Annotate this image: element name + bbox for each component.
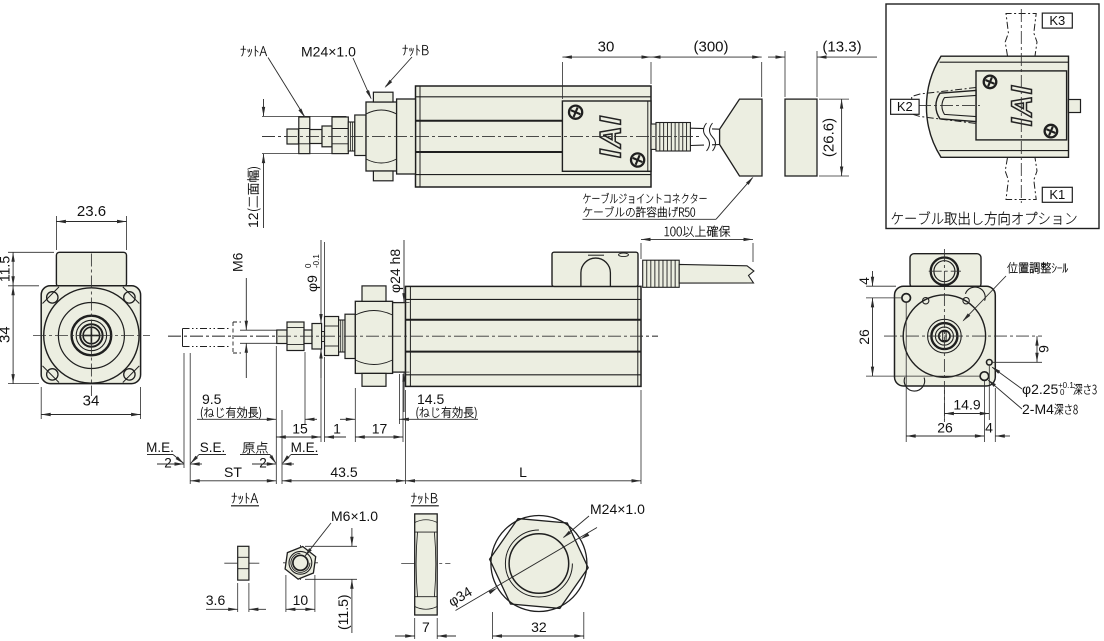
flange ring behind nut B (top view) bbox=[397, 99, 416, 174]
label origin (genten) with leader bbox=[243, 442, 268, 454]
svg-text:φ9: φ9 bbox=[304, 275, 320, 292]
body lines (box view) bbox=[940, 62, 1069, 150]
rod end circle (front view) bbox=[80, 324, 102, 346]
svg-text:9: 9 bbox=[1036, 345, 1052, 353]
front ring (middle view) bbox=[345, 314, 355, 358]
cylinder body (top side view) bbox=[416, 86, 652, 187]
bolt hole bottom-right (front view) bbox=[124, 369, 135, 380]
phi34 circle bbox=[491, 516, 587, 612]
svg-text:M24×1.0: M24×1.0 bbox=[590, 501, 645, 517]
svg-text:0: 0 bbox=[1060, 388, 1065, 397]
grommet block (top view) bbox=[785, 99, 817, 176]
screw (plate top-left, top view) bbox=[569, 106, 582, 119]
nut B side view bbox=[401, 563, 450, 565]
svg-text:12: 12 bbox=[245, 212, 261, 228]
svg-text:S.E.: S.E. bbox=[200, 440, 226, 455]
label nut A (top) with leader bbox=[241, 46, 267, 57]
nut A side view bbox=[224, 562, 262, 564]
IAI label plate (top view) bbox=[562, 101, 651, 171]
dimension 10 bbox=[285, 575, 287, 612]
svg-text:M.E.: M.E. bbox=[146, 440, 174, 455]
cable with jagged end (middle view) bbox=[679, 264, 754, 283]
svg-text:4: 4 bbox=[856, 277, 872, 285]
centerline horizontal (box view) bbox=[896, 105, 980, 107]
cable stub (top view) bbox=[651, 124, 656, 149]
phi2.25 hole (rear view) bbox=[987, 360, 993, 366]
dimension (13.3) bbox=[784, 51, 786, 97]
rod collar phi9 (middle view) bbox=[312, 324, 322, 350]
nut B front view bbox=[494, 563, 584, 565]
svg-text:φ2.25: φ2.25 bbox=[1022, 381, 1059, 397]
dimension 15 bbox=[276, 436, 321, 438]
phi34 diagonal leader bbox=[456, 528, 598, 611]
option box border bbox=[886, 4, 1099, 229]
svg-text:10: 10 bbox=[293, 592, 309, 608]
dimension 43.5 bbox=[282, 480, 406, 482]
body extrusion lines (top view) bbox=[416, 96, 652, 98]
svg-text:(11.5): (11.5) bbox=[335, 594, 351, 630]
bolt hole top-left (front view) bbox=[47, 292, 58, 303]
front view top bump bbox=[56, 252, 126, 286]
rod shaft (top view) bbox=[310, 130, 322, 144]
dimension 12 across flats bbox=[262, 115, 346, 117]
center screw with cross slot (front view) bbox=[83, 327, 100, 344]
dimension 4 (rear left top) bbox=[866, 285, 896, 287]
centerlines (front view) bbox=[33, 335, 150, 337]
nut A on rod (top view) bbox=[299, 117, 310, 154]
svg-text:2: 2 bbox=[164, 456, 172, 471]
svg-text:3.6: 3.6 bbox=[206, 592, 226, 608]
svg-text:M6×1.0: M6×1.0 bbox=[331, 508, 378, 524]
svg-text:4: 4 bbox=[985, 420, 993, 436]
body end face lines (middle view) bbox=[409, 286, 411, 386]
cable arch in housing (middle view) bbox=[581, 258, 611, 286]
svg-text:L: L bbox=[519, 464, 527, 480]
cable break symbol (top view) bbox=[704, 123, 710, 151]
dimension phi24 h8 (neck) bbox=[403, 240, 405, 303]
svg-text:IAI: IAI bbox=[1007, 85, 1039, 127]
screw top-left (box view) bbox=[984, 76, 997, 89]
flange corner chamfer lines bbox=[43, 287, 60, 304]
dimension 30 (top) bbox=[561, 62, 563, 99]
cable corrugation (top view) bbox=[656, 123, 690, 152]
K3 label box bbox=[1042, 13, 1072, 28]
dimension 9 (rear right) bbox=[992, 361, 1042, 363]
svg-text:(26.6): (26.6) bbox=[821, 118, 838, 157]
dimension 100 min clearance bbox=[640, 243, 642, 259]
centerline redraw (top view) bbox=[262, 135, 702, 137]
dimension L bbox=[406, 480, 642, 482]
svg-text:34: 34 bbox=[0, 326, 14, 343]
dimension 26 (rear bottom) bbox=[905, 302, 907, 442]
thread rings (top view) bbox=[348, 122, 355, 151]
cable corrugation (middle view) bbox=[643, 260, 680, 287]
label nut B (bottom) bbox=[411, 493, 437, 504]
centerline (top side view) bbox=[262, 135, 702, 137]
svg-text:-0.1: -0.1 bbox=[312, 254, 321, 268]
M4 hole top-left (rear view) bbox=[902, 294, 911, 303]
body extrusion lines (middle view) bbox=[406, 298, 642, 300]
cable joint connector cone (top view) bbox=[720, 99, 762, 176]
svg-text:7: 7 bbox=[422, 619, 430, 635]
svg-text:26: 26 bbox=[856, 329, 872, 345]
bearing retainer rings (front view) bbox=[72, 316, 112, 356]
corner lobe top-right (rear view) bbox=[965, 287, 985, 301]
dimension 7 bbox=[414, 618, 416, 639]
thread rings (middle view) bbox=[339, 320, 345, 352]
svg-text:ST: ST bbox=[224, 464, 242, 480]
svg-text:17: 17 bbox=[372, 421, 388, 437]
extension lines below rod (middle view) bbox=[275, 346, 277, 484]
piston rod tip M6 (top view) bbox=[287, 129, 299, 144]
bolt hole top-right (front view) bbox=[124, 292, 135, 303]
svg-text:K1: K1 bbox=[1049, 187, 1065, 202]
retracted rod phantom outline (middle view) bbox=[182, 329, 184, 347]
rod collar (top view) bbox=[322, 126, 332, 147]
svg-text:M.E.: M.E. bbox=[291, 440, 319, 455]
boss circle (front view) bbox=[44, 288, 139, 383]
dimension 32 bbox=[492, 612, 494, 639]
dimension M6 (rod tip) bbox=[240, 329, 277, 331]
centerlines (rear view) bbox=[884, 335, 1042, 337]
svg-text:K3: K3 bbox=[1049, 13, 1065, 28]
K1 label box bbox=[1042, 187, 1072, 202]
body end face lines (top view) bbox=[419, 86, 421, 187]
K3 phantom connector (dash-dot) bbox=[1005, 14, 1037, 57]
dimension 1 bbox=[325, 436, 347, 438]
svg-text:43.5: 43.5 bbox=[330, 464, 357, 480]
connector housing bump (middle view) bbox=[552, 252, 638, 286]
K1 phantom connector (dash-dot) bbox=[1005, 158, 1037, 200]
nut B M24 (top view) bbox=[366, 102, 397, 171]
housing top edge details bbox=[588, 254, 604, 256]
inner circle (front view) bbox=[58, 303, 124, 369]
cable gland circle (rear view) bbox=[931, 258, 958, 285]
phi24 h8 neck (middle view) bbox=[393, 303, 406, 373]
dimension 11.5 (front view) bbox=[8, 251, 54, 253]
boss circle (rear view) bbox=[903, 295, 985, 377]
label position adjustment seal with leader bbox=[1007, 262, 1068, 273]
nut B thread circles bbox=[505, 530, 572, 597]
svg-text:2-M4: 2-M4 bbox=[1022, 401, 1054, 417]
IAI plate (box view) bbox=[976, 71, 1067, 140]
svg-text:M6: M6 bbox=[230, 252, 246, 272]
dimension 4 (rear bottom right) bbox=[994, 388, 996, 442]
right stub (box view) bbox=[1069, 100, 1081, 113]
svg-text:2: 2 bbox=[259, 456, 267, 471]
svg-text:K2: K2 bbox=[897, 99, 913, 114]
rod end hex (top view) bbox=[332, 117, 348, 154]
nut B M24 (middle view) bbox=[355, 301, 392, 373]
dimension 34 vertical (front view) bbox=[8, 383, 39, 385]
cable joint connector label with leader bbox=[583, 193, 706, 204]
K2 phantom connector (dash-dot) bbox=[912, 88, 976, 124]
cylinder body (middle view) bbox=[406, 286, 642, 386]
K2 label box bbox=[891, 99, 920, 114]
svg-text:30: 30 bbox=[598, 39, 615, 56]
dimension 3.6 bbox=[237, 583, 239, 612]
small hole right on boss (rear view) bbox=[963, 298, 969, 304]
svg-text:34: 34 bbox=[83, 393, 100, 410]
centerline (middle view) bbox=[168, 335, 658, 337]
dimension (26.6) bbox=[819, 98, 849, 100]
dimension (300) bbox=[761, 62, 763, 97]
nut A front view hexagon bbox=[283, 562, 318, 564]
M4 hole bottom-right (rear view) bbox=[980, 372, 989, 381]
cable (top view, with break) bbox=[690, 128, 719, 145]
neck 1mm (middle view) bbox=[322, 332, 325, 342]
K2 connector solid (box view) bbox=[936, 90, 976, 121]
rod end hex (middle view) bbox=[325, 317, 339, 356]
dimension 34 bottom (front view) bbox=[40, 387, 42, 419]
rod shaft (middle view) bbox=[304, 330, 312, 344]
svg-text:(300): (300) bbox=[693, 39, 728, 56]
hub rings (rear view) bbox=[928, 319, 962, 353]
label nut B (top) with leader bbox=[403, 45, 429, 56]
rear view square flange bbox=[895, 286, 996, 386]
svg-text:1: 1 bbox=[333, 421, 341, 437]
centerline redraw (middle view) bbox=[168, 335, 658, 337]
screw bottom-right (box view) bbox=[1045, 125, 1058, 138]
label nut A (bottom) bbox=[232, 493, 258, 504]
svg-text:32: 32 bbox=[531, 619, 547, 635]
nut A thread circles bbox=[289, 551, 312, 574]
centerline vertical (box view) bbox=[1020, 9, 1022, 203]
actuator body (box view) bbox=[926, 56, 1068, 157]
rear view connector bump bbox=[910, 254, 981, 288]
svg-text:9.5: 9.5 bbox=[202, 391, 222, 407]
svg-text:φ24 h8: φ24 h8 bbox=[387, 249, 403, 293]
nut A (middle view) bbox=[287, 322, 304, 351]
svg-text:14.9: 14.9 bbox=[953, 397, 980, 413]
dimension 17 bbox=[355, 436, 403, 438]
dimension 26 (rear left) bbox=[866, 375, 981, 377]
corner lobe bottom-left (rear view) bbox=[904, 377, 924, 391]
dimension ST bbox=[190, 480, 276, 482]
svg-text:14.5: 14.5 bbox=[417, 391, 444, 407]
svg-text:26: 26 bbox=[937, 420, 953, 436]
dimension 14.9 (rear) bbox=[988, 366, 990, 420]
front view square flange bbox=[41, 286, 140, 384]
dimension 23.6 (front view) bbox=[55, 216, 57, 250]
dimension (11.5) bbox=[305, 545, 357, 547]
svg-text:M24×1.0: M24×1.0 bbox=[301, 44, 356, 60]
svg-text:(13.3): (13.3) bbox=[822, 39, 861, 56]
screw (plate bottom-right, top view) bbox=[631, 153, 644, 166]
svg-text:23.6: 23.6 bbox=[77, 203, 106, 220]
svg-text:11.5: 11.5 bbox=[0, 256, 13, 282]
bolt hole bottom-left (front view) bbox=[47, 369, 58, 380]
caption cable outlet direction option bbox=[892, 211, 1077, 225]
dimension phi9 tolerance (collar) bbox=[320, 240, 322, 324]
small hole left on boss (rear view) bbox=[923, 298, 929, 304]
rod tip M6 (middle view) bbox=[277, 330, 287, 344]
front ring (top view) bbox=[355, 115, 366, 156]
svg-text:15: 15 bbox=[292, 421, 308, 437]
